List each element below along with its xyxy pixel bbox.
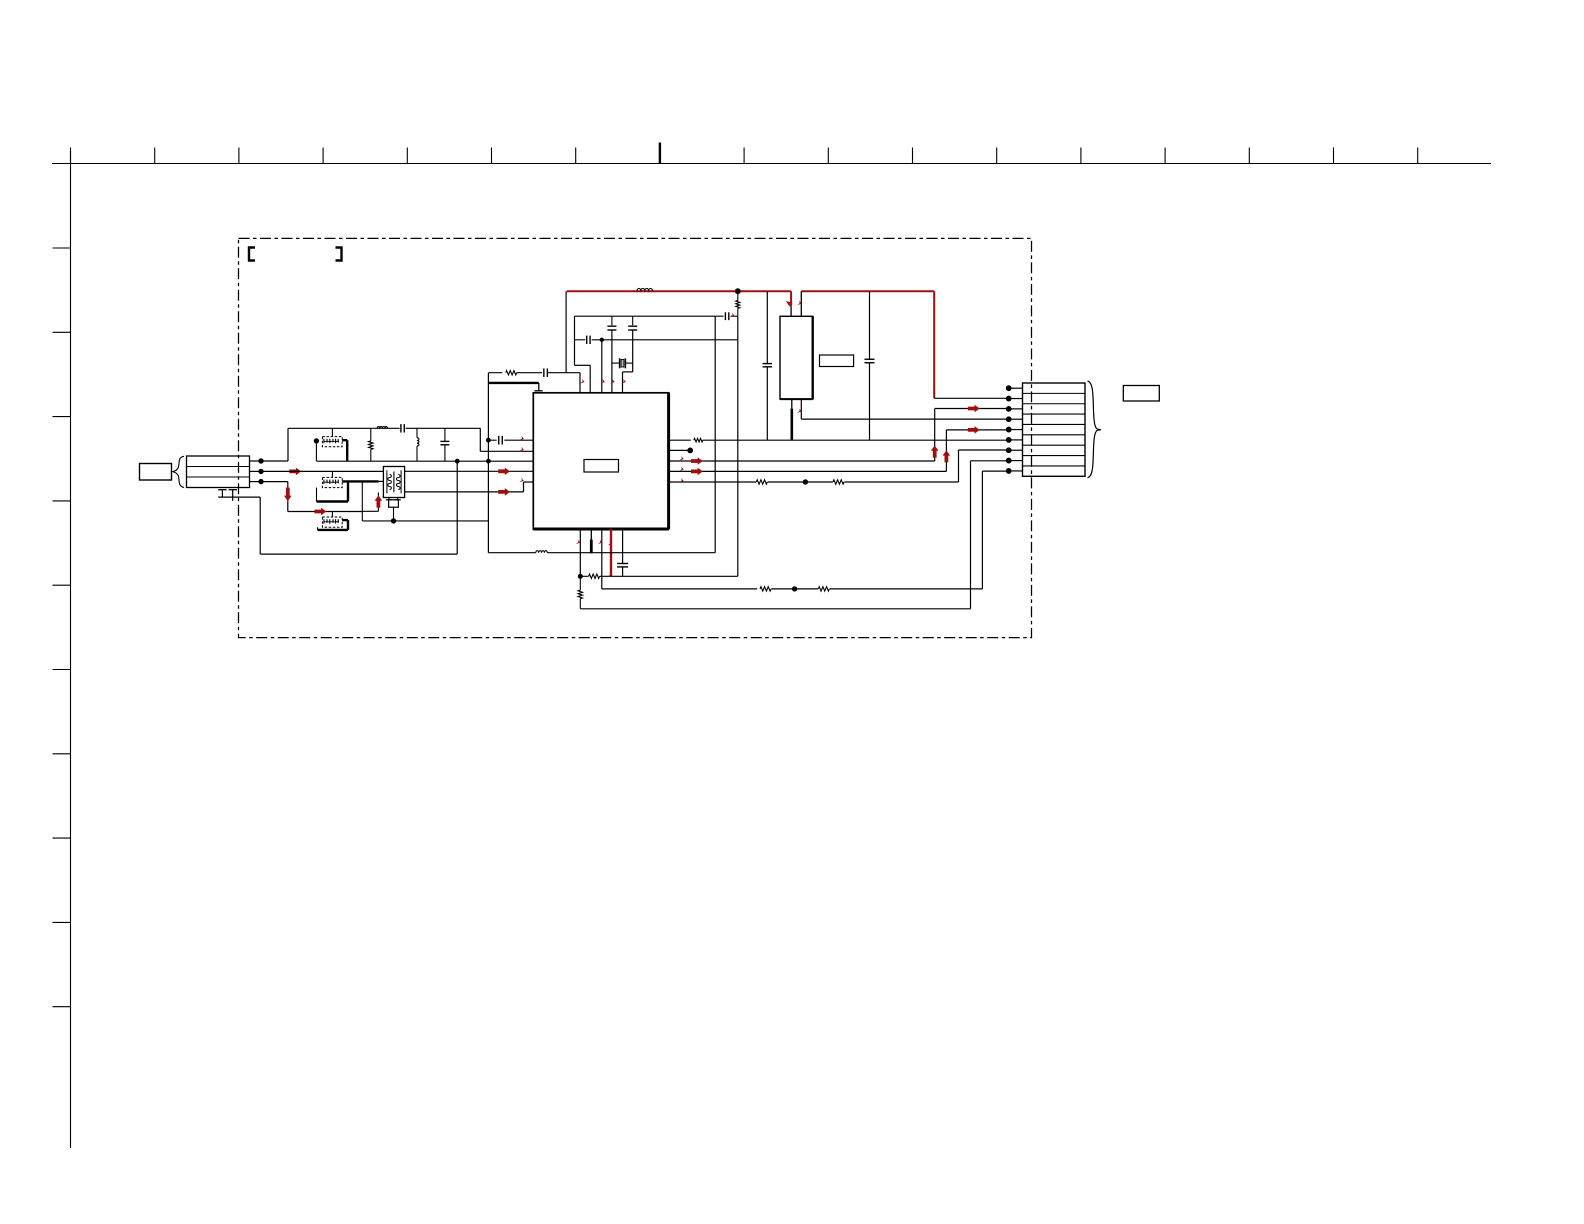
connector CN1 body bbox=[187, 456, 250, 488]
capacitor C8 bbox=[715, 312, 737, 320]
wire riser x288 bbox=[287, 428, 289, 461]
wire top rail y428 bbox=[288, 427, 480, 429]
wire shield down bbox=[259, 497, 261, 554]
wire riser pin9 bbox=[981, 471, 983, 589]
signal arrow bbox=[968, 426, 980, 434]
wire Q3 base stub bbox=[331, 512, 333, 518]
wire line y340 bbox=[575, 339, 738, 341]
wire to CN2 pin8 bbox=[971, 460, 1009, 462]
signal mark bbox=[621, 379, 625, 384]
signal mark bbox=[786, 301, 793, 308]
CN1 pin 3 bbox=[250, 479, 264, 484]
wire line y552 bbox=[488, 551, 715, 553]
wire to CN2 pin5 bbox=[946, 429, 1008, 431]
node bbox=[455, 459, 460, 464]
wire IC pin bottom E bbox=[617, 529, 628, 576]
signal mark bbox=[520, 436, 524, 441]
wire pinD down bbox=[611, 330, 613, 393]
inductor L1 (series on rail) bbox=[377, 426, 387, 428]
wire Q1 emitter loop bbox=[315, 443, 317, 461]
inductor L3 (on B+ rail) bbox=[637, 288, 653, 291]
wire to CN2 pin9 bbox=[982, 470, 1008, 472]
wire line y576 bbox=[580, 574, 738, 578]
wire B+ to CN2 pin2 bbox=[934, 397, 1009, 399]
label box (to board) bbox=[1123, 386, 1159, 402]
capacitor C5 bbox=[544, 368, 548, 377]
wire Q2 base stub bbox=[331, 471, 333, 477]
signal arrow bbox=[284, 488, 292, 502]
net red bottom bbox=[610, 529, 612, 576]
ceramic filter CF1 bbox=[383, 467, 404, 498]
wire Q3 emitter loop bbox=[318, 527, 349, 530]
wire IC pin bottom C bbox=[601, 529, 603, 589]
wire filter to IC bbox=[405, 470, 534, 472]
wire node riser x362 bbox=[361, 481, 363, 521]
net B+ (red rail left) bbox=[567, 290, 791, 292]
wire rail y316 bbox=[575, 315, 716, 317]
label box (pickup) bbox=[140, 464, 172, 481]
signal mark bbox=[608, 572, 612, 577]
wire pinE down bbox=[623, 330, 633, 393]
label box FL1 bbox=[820, 355, 854, 367]
wire shield riser bbox=[456, 461, 458, 554]
CN1 pin 1 bbox=[250, 458, 264, 463]
wire pin1 to riser bbox=[261, 460, 288, 462]
resistor R3 bbox=[488, 371, 516, 375]
wire arrow branch bbox=[362, 492, 378, 511]
wire FL1 pin1 stub bbox=[790, 291, 792, 316]
wire Q2 emitter loop bbox=[317, 483, 349, 502]
wire Q1 base stub bbox=[331, 428, 333, 436]
net B+ (red rail right) bbox=[801, 290, 934, 292]
CN1 row divider bbox=[187, 476, 250, 478]
signal arrow bbox=[315, 508, 327, 516]
CN1 pin 2 bbox=[250, 469, 264, 474]
signal arrow bbox=[498, 488, 510, 496]
wire CF1 to node bbox=[393, 507, 395, 521]
wire rail into IC bbox=[480, 450, 533, 452]
CN1 shield ground bbox=[218, 490, 260, 501]
component FL1 (battery holder) bbox=[780, 316, 813, 399]
wire pinA down bbox=[579, 373, 581, 393]
wire riser pin8 bbox=[970, 461, 972, 609]
capacitor C2 bbox=[628, 316, 637, 330]
node bbox=[792, 586, 797, 591]
signal arrow bbox=[931, 445, 939, 457]
wire FL1 to CN2 pin4 bbox=[801, 418, 1008, 420]
wire riser x737 bbox=[737, 316, 739, 576]
transistor Q2 bbox=[322, 477, 342, 487]
wire shield bottom run bbox=[260, 553, 457, 555]
wire pin3 lower run bbox=[288, 511, 363, 513]
wire pinC down bbox=[601, 340, 603, 393]
wire Q1 collector (thick) bbox=[342, 440, 347, 461]
signal mark bbox=[679, 456, 683, 461]
signal mark bbox=[520, 447, 524, 452]
capacitor C10 bbox=[865, 291, 875, 440]
CN1 row divider bbox=[187, 466, 250, 468]
signal mark bbox=[601, 379, 605, 384]
wire FL1 pin2 stub bbox=[800, 291, 802, 316]
wire riser pin5 bbox=[945, 430, 947, 472]
resistor R5 (vert) bbox=[578, 576, 582, 609]
capacitor C4 (shunt) bbox=[440, 428, 449, 461]
signal arrow bbox=[691, 468, 703, 476]
wire thick to IC top bbox=[488, 383, 542, 391]
wire pinA riser bbox=[565, 291, 567, 373]
signal mark bbox=[797, 408, 801, 413]
wire IC pin bottom A bbox=[578, 529, 583, 579]
CN2 pins bbox=[1006, 385, 1023, 474]
wire IC pin bottom B (thick) bbox=[590, 529, 592, 553]
wire to CN2 pin7 bbox=[959, 449, 1009, 451]
wire line y589 bbox=[602, 587, 983, 591]
wire riser x715 bbox=[714, 316, 716, 553]
signal arrow bbox=[943, 450, 951, 462]
wire pin2 to filter bbox=[261, 470, 383, 472]
signal arrow bbox=[289, 468, 301, 476]
wire IC out y482 bbox=[669, 480, 959, 484]
signal mark bbox=[730, 313, 734, 318]
wire riser pin7 bbox=[958, 450, 960, 482]
node bbox=[803, 479, 808, 484]
resistor R4 bbox=[736, 291, 740, 316]
wire c5 to pinA bbox=[547, 372, 580, 374]
lower rail y461 bbox=[317, 460, 534, 462]
wire riser pin3 bbox=[934, 409, 936, 462]
signal mark bbox=[608, 541, 612, 546]
transistor Q1 bbox=[314, 437, 343, 447]
signal arrow bbox=[498, 468, 510, 476]
signal arrow bbox=[375, 495, 383, 507]
signal mark bbox=[580, 379, 584, 384]
wire pin3 run bbox=[261, 482, 288, 512]
crystal X1 bbox=[612, 358, 633, 368]
resistor R2 (shunt) bbox=[369, 428, 373, 461]
IC U1 bbox=[533, 393, 668, 529]
signal mark bbox=[576, 539, 580, 544]
signal mark bbox=[598, 539, 602, 544]
capacitor C6 (to IC) bbox=[488, 436, 533, 445]
wire to CN2 pin3 bbox=[935, 408, 1009, 410]
wire riser x488 bbox=[487, 373, 489, 553]
node stub bbox=[669, 448, 694, 454]
wire line y608 bbox=[580, 608, 970, 610]
node bbox=[486, 438, 491, 464]
capacitor C1 bbox=[607, 316, 616, 330]
block label brackets bbox=[249, 248, 342, 261]
brace right of CN2 bbox=[1088, 381, 1101, 478]
wire IC out y461 bbox=[669, 460, 935, 462]
CF1 base legs bbox=[386, 498, 401, 508]
capacitor C9 bbox=[763, 291, 773, 440]
wire r3 to c5 bbox=[517, 372, 542, 374]
brace left of CN1 bbox=[173, 456, 184, 487]
connector CN2 body bbox=[1023, 383, 1086, 476]
CN2 row dividers bbox=[1023, 393, 1086, 466]
signal mark bbox=[679, 466, 683, 471]
signal mark bbox=[797, 300, 801, 305]
capacitor C7 (series) bbox=[587, 336, 590, 344]
signal arrow bbox=[968, 405, 980, 413]
node bbox=[600, 338, 604, 342]
transistor Q3 bbox=[322, 517, 342, 527]
wire node run bbox=[362, 520, 488, 522]
node bbox=[735, 288, 741, 294]
net B+ (red drop) bbox=[933, 291, 935, 398]
inductor L2 (shunt) bbox=[417, 428, 419, 461]
ground line y440 bbox=[669, 438, 1009, 442]
signal arrow bbox=[691, 457, 703, 465]
capacitor C3 (series on rail) bbox=[401, 424, 404, 432]
wire IC out y471 bbox=[669, 470, 947, 472]
wire stair pinB bbox=[575, 316, 591, 393]
board outline (dash-dot block boundary) bbox=[239, 238, 1032, 637]
wire FL1 bottom left (thick) bbox=[791, 399, 793, 440]
node (filter ground) bbox=[391, 518, 396, 523]
signal mark bbox=[679, 478, 683, 483]
wire filter lower out bbox=[405, 482, 534, 492]
wire Q3 collector (thick) bbox=[342, 520, 348, 530]
signal mark bbox=[610, 379, 614, 384]
wire Q2 collector (thick) bbox=[342, 480, 383, 482]
signal mark bbox=[519, 478, 523, 483]
wire FL1 bottom right bbox=[800, 399, 802, 419]
IC U1 label box bbox=[584, 460, 619, 473]
wire rail step down bbox=[479, 428, 481, 451]
